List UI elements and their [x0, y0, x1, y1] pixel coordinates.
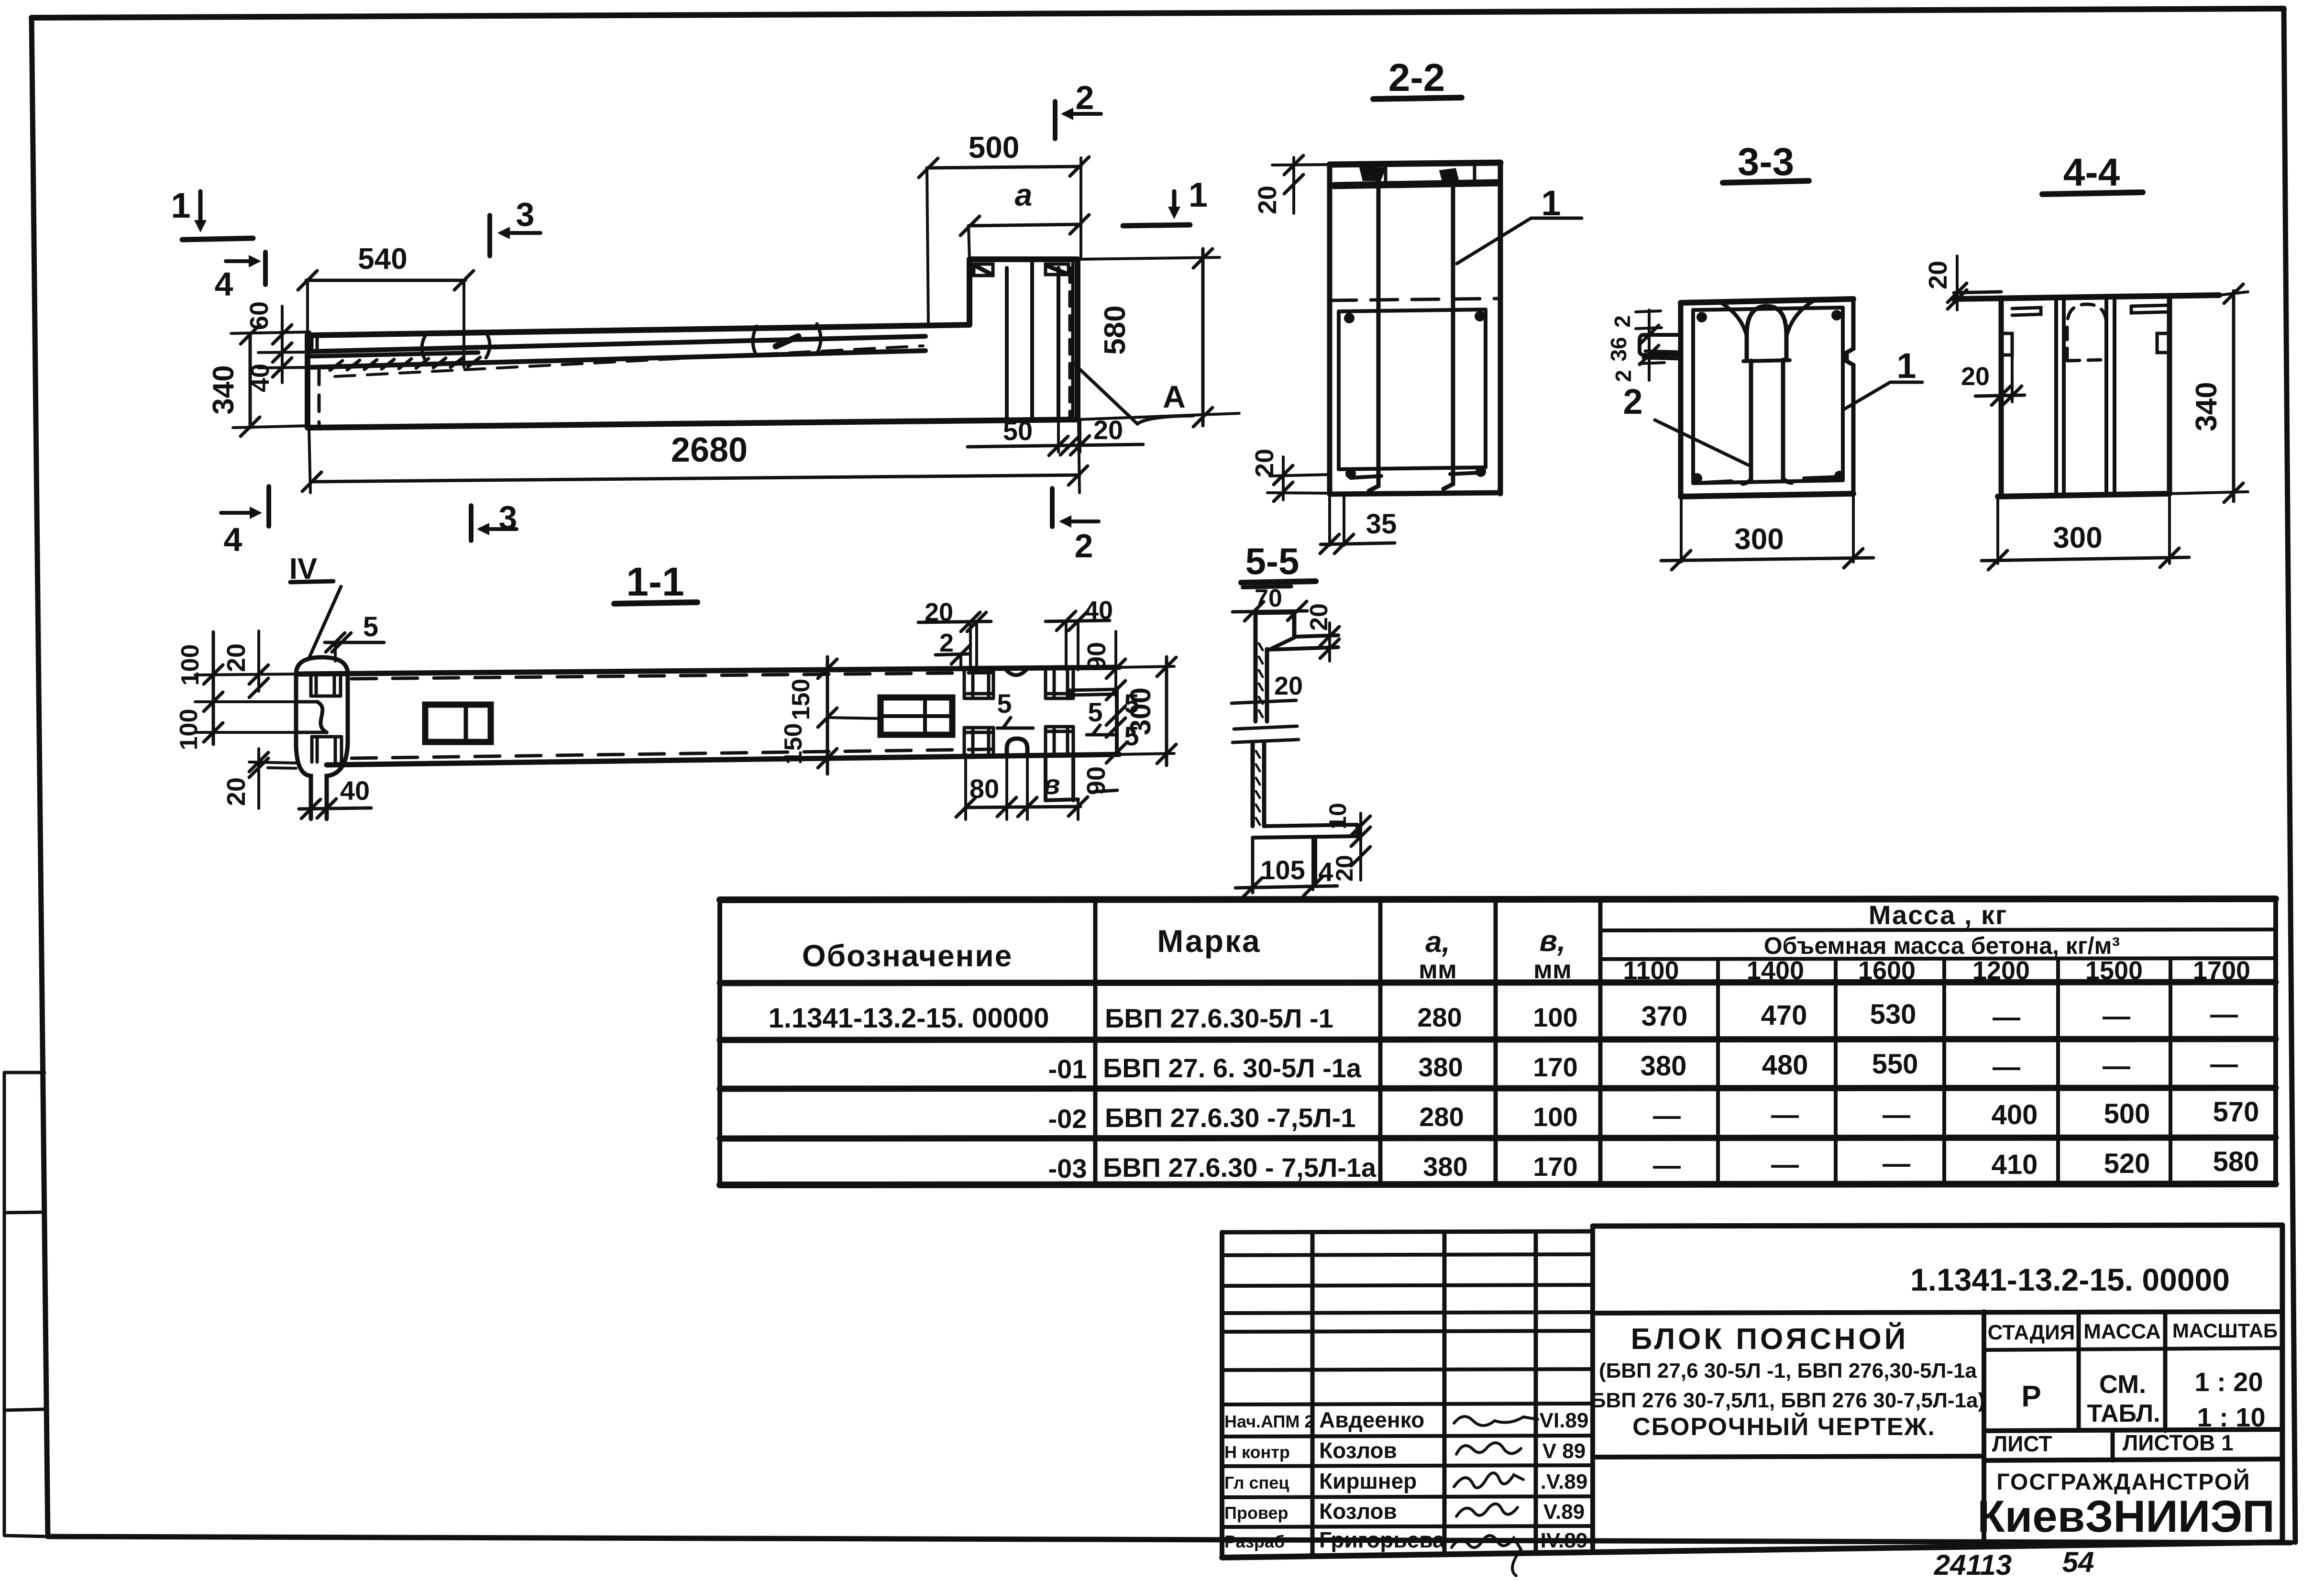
dimension a: [960, 177, 1089, 259]
cap inner bottom groove box: [312, 737, 341, 762]
svg-text:300: 300: [1734, 523, 1784, 556]
dimension 20 right of top flange: [1305, 603, 1339, 661]
section 5-5 top flange: [1256, 612, 1338, 650]
section 2-2 dashed level line: [1330, 299, 1500, 300]
svg-text:410: 410: [1992, 1149, 2038, 1180]
svg-text:170: 170: [1533, 1151, 1577, 1182]
signatures squiggles: [1452, 1416, 1538, 1576]
svg-text:СБОРОЧНЫЙ ЧЕРТЕЖ.: СБОРОЧНЫЙ ЧЕРТЕЖ.: [1632, 1413, 1936, 1441]
svg-text:1 : 10: 1 : 10: [2197, 1402, 2265, 1432]
svg-text:400: 400: [1992, 1099, 2038, 1130]
svg-text:Объемная масса бетона, кг/м: Объемная масса бетона, кг/м³: [1764, 932, 2120, 959]
svg-text:3: 3: [516, 196, 535, 233]
plan view dashed hidden line left end: [318, 368, 321, 428]
dimension 80 and b under U slot: [956, 754, 1088, 819]
svg-text:БВП 27.6.30 - 7,5Л-1а: БВП 27.6.30 - 7,5Л-1а: [1103, 1152, 1377, 1183]
dimension 20 top-left of 4-4: [1924, 256, 1967, 310]
svg-text:—: —: [1771, 1149, 1799, 1180]
svg-text:1: 1: [1541, 183, 1561, 223]
plan view anchor notches under raised top: [974, 264, 1068, 276]
svg-text:500: 500: [969, 130, 1020, 165]
svg-text:280: 280: [1417, 1002, 1462, 1032]
svg-text:90: 90: [1082, 642, 1111, 671]
svg-text:—: —: [1653, 1150, 1681, 1181]
svg-text:Марка: Марка: [1157, 923, 1261, 959]
handwritten archive numbers: [1934, 1546, 2094, 1581]
svg-text:54: 54: [2062, 1546, 2094, 1578]
svg-text:340: 340: [2190, 382, 2223, 431]
section marker 3 bottom: [471, 499, 517, 541]
svg-text:СМ.: СМ.: [2099, 1370, 2146, 1399]
svg-text:2: 2: [1075, 527, 1093, 564]
svg-text:1200: 1200: [1972, 956, 2030, 985]
svg-text:Нач.АПМ 2: Нач.АПМ 2: [1224, 1412, 1314, 1431]
dimension 90 lower right: [1082, 766, 1117, 795]
svg-text:300: 300: [1124, 687, 1156, 735]
svg-text:V 89: V 89: [1542, 1439, 1586, 1463]
dimension 20 below bottom flange: [1331, 842, 1370, 882]
section marker 1 top-right: [1123, 176, 1208, 226]
svg-text:А: А: [1163, 379, 1186, 414]
dimensions 5 5 right edge: [1106, 688, 1139, 763]
leader A on plan view: [1074, 364, 1193, 424]
svg-text:a: a: [1015, 177, 1033, 212]
section 1-1 left hammerhead cap: [296, 657, 348, 819]
svg-text:2-2: 2-2: [1388, 56, 1445, 100]
dimension 20 web thickness: [1232, 672, 1303, 703]
svg-text:530: 530: [1870, 999, 1916, 1030]
section 4-4 outline: [1954, 292, 2219, 497]
svg-text:БЛОК ПОЯСНОЙ: БЛОК ПОЯСНОЙ: [1631, 1322, 1909, 1356]
section marker 2 top-right: [1055, 79, 1101, 139]
svg-text:50: 50: [1003, 416, 1033, 446]
svg-text:1.1341-13.2-15. 00000: 1.1341-13.2-15. 00000: [1910, 1262, 2230, 1297]
svg-text:—: —: [1883, 1099, 1910, 1130]
svg-text:МАСШТАБ: МАСШТАБ: [2172, 1319, 2278, 1342]
svg-text:5: 5: [1088, 697, 1102, 727]
svg-text:КиевЗНИИЭП: КиевЗНИИЭП: [1977, 1491, 2275, 1541]
dimension 540: [298, 243, 474, 367]
dimension 50 and 20 bottom right: [968, 415, 1143, 455]
svg-text:1: 1: [171, 186, 190, 225]
svg-text:36: 36: [1606, 337, 1631, 361]
svg-text:20: 20: [222, 643, 251, 672]
cap notch stub lines: [296, 702, 327, 732]
cap S-curve detail: [317, 702, 327, 732]
dimension 90 upper right: [1082, 631, 1125, 700]
leader 1 on section 3-3: [1843, 346, 1922, 410]
embedded plate with hole (left): [425, 705, 491, 742]
table row 2: [1048, 1049, 2238, 1084]
dimension 300 of 4-4: [1982, 494, 2189, 570]
view title 3-3: [1723, 140, 1809, 184]
dimension 300 of 3-3: [1661, 494, 1873, 570]
svg-text:280: 280: [1419, 1102, 1464, 1132]
svg-text:1 : 20: 1 : 20: [2194, 1367, 2263, 1397]
svg-text:4-4: 4-4: [2063, 151, 2120, 194]
svg-text:5: 5: [997, 688, 1012, 719]
section marker 4 top-left: [215, 252, 265, 303]
section 1-1 right end top notch boxes: [964, 670, 1073, 698]
svg-text:100: 100: [1533, 1002, 1577, 1032]
dimension 105 and leader 4 of 5-5: [1235, 837, 1337, 897]
svg-text:40: 40: [340, 775, 370, 806]
svg-text:в,: в,: [1540, 925, 1566, 958]
svg-text:БВП 27.6.30-5Л -1: БВП 27.6.30-5Л -1: [1105, 1003, 1333, 1033]
dimension 20 cap top-left: [222, 631, 268, 697]
plan view small groove at left end: [312, 335, 317, 352]
table row 4: [1048, 1146, 2259, 1183]
svg-text:БВП 276 30-7,5Л1, БВП 276 30-7: БВП 276 30-7,5Л1, БВП 276 30-7,5Л-1а): [1591, 1389, 1985, 1412]
dimension 340 of 4-4: [2170, 284, 2248, 502]
section 3-3 left tab: [1640, 335, 1681, 359]
svg-text:100: 100: [1533, 1102, 1577, 1132]
dimension 35 of 2-2: [1320, 494, 1397, 553]
section 4-4 hidden void dashed: [2067, 304, 2106, 361]
dimension 70 of 5-5: [1233, 585, 1307, 621]
svg-text:580: 580: [2213, 1146, 2259, 1177]
svg-text:в: в: [1043, 769, 1060, 800]
svg-text:5: 5: [363, 611, 378, 642]
section 1-1 hidden rebar dashed lines: [352, 673, 1002, 758]
svg-text:2680: 2680: [671, 431, 748, 469]
section marker 1 top-left: [171, 186, 253, 240]
dimension 5 at cap top: [325, 611, 384, 661]
svg-text:4: 4: [1318, 857, 1333, 887]
section 3-3 stirrup: [1692, 308, 1845, 484]
section 5-5 web lower part: [1253, 743, 1264, 826]
svg-text:300: 300: [2053, 521, 2102, 554]
svg-text:1-1: 1-1: [626, 559, 684, 604]
table row 3: [1048, 1096, 2259, 1134]
filing margin boxes on left border: [4, 1072, 48, 1537]
dimension 40 left: [246, 352, 308, 392]
section 5-5 bottom flange: [1253, 825, 1357, 838]
svg-text:20: 20: [222, 777, 251, 806]
svg-text:1: 1: [1896, 346, 1916, 386]
title block signature table grid: [1222, 1226, 1593, 1558]
svg-text:—: —: [1883, 1148, 1910, 1179]
svg-text:20: 20: [1924, 261, 1952, 289]
svg-text:2: 2: [1076, 79, 1094, 116]
svg-text:340: 340: [207, 365, 240, 414]
dimension 40 above right end: [1046, 596, 1113, 670]
svg-text:580: 580: [1099, 305, 1132, 354]
svg-text:—: —: [1653, 1100, 1681, 1131]
svg-text:1500: 1500: [2085, 956, 2143, 985]
section marker 4 bottom-left: [221, 486, 269, 558]
svg-text:ЛИСТ: ЛИСТ: [1992, 1431, 2052, 1456]
section 5-5 break lines: [1233, 726, 1299, 742]
svg-text:4: 4: [215, 265, 233, 303]
cap inner top groove box: [311, 676, 341, 696]
plan view raised part inner vertical lines: [1007, 259, 1073, 420]
svg-text:Провер: Провер: [1224, 1503, 1289, 1523]
view title 1-1: [614, 559, 697, 604]
section 1-1 right end bottom notch boxes: [964, 727, 1073, 754]
section marker 2 bottom-right: [1052, 488, 1099, 564]
sheet number row: [1984, 1430, 2282, 1460]
signature table row labels: [1224, 1407, 1588, 1552]
section 1-1 body outline: [296, 667, 1119, 765]
svg-text:150: 150: [787, 679, 815, 720]
svg-text:500: 500: [2104, 1098, 2150, 1129]
svg-text:170: 170: [1533, 1052, 1577, 1082]
dimension 2680: [302, 420, 1088, 493]
svg-text:10: 10: [1324, 803, 1351, 829]
plan view depression arcs pair 2: [753, 324, 821, 356]
svg-text:Григорьева: Григорьева: [1319, 1527, 1445, 1552]
svg-text:380: 380: [1641, 1050, 1687, 1082]
svg-text:мм: мм: [1419, 955, 1457, 984]
dimension 20 bottom-left of 2-2: [1250, 449, 1330, 501]
svg-text:150: 150: [780, 723, 807, 765]
svg-text:520: 520: [2104, 1148, 2150, 1179]
svg-text:Р: Р: [2021, 1380, 2041, 1413]
svg-text:570: 570: [2213, 1096, 2259, 1128]
svg-text:20: 20: [1250, 449, 1279, 477]
svg-text:—: —: [2103, 1001, 2130, 1032]
svg-text:100: 100: [175, 709, 203, 751]
tab mini dimensions 2 36 2: [1606, 310, 1664, 382]
section 3-3 outline: [1681, 299, 1853, 497]
svg-text:370: 370: [1641, 1001, 1688, 1032]
svg-text:.V.89: .V.89: [1541, 1470, 1588, 1493]
svg-text:20: 20: [1274, 672, 1303, 700]
leader 2 on section 3-3: [1623, 382, 1748, 465]
svg-text:МАССА: МАССА: [2083, 1320, 2161, 1343]
svg-text:БВП 27.6.30 -7,5Л-1: БВП 27.6.30 -7,5Л-1: [1105, 1103, 1355, 1133]
svg-text:VI.89: VI.89: [1540, 1409, 1589, 1432]
svg-text:540: 540: [358, 243, 407, 276]
svg-text:Н контр: Н контр: [1224, 1442, 1290, 1462]
svg-text:ЛИСТОВ 1: ЛИСТОВ 1: [2123, 1430, 2234, 1455]
svg-text:СТАДИЯ: СТАДИЯ: [1988, 1321, 2075, 1344]
view title 4-4: [2042, 151, 2143, 194]
svg-text:550: 550: [1872, 1049, 1918, 1080]
svg-text:3-3: 3-3: [1738, 140, 1795, 184]
svg-text:4: 4: [224, 521, 242, 558]
svg-text:БВП 27. 6. 30-5Л -1а: БВП 27. 6. 30-5Л -1а: [1103, 1053, 1362, 1083]
svg-text:105: 105: [1260, 855, 1305, 885]
drawing title text: [1591, 1322, 1985, 1441]
svg-text:80: 80: [969, 774, 999, 804]
organization names: [1977, 1469, 2275, 1541]
dimension 150 150 mid-span: [780, 657, 881, 774]
section 4-4 inner channel walls: [2056, 297, 2115, 494]
right end plate lines: [1068, 689, 1117, 754]
svg-text:1.1341-13.2-15. 00000: 1.1341-13.2-15. 00000: [769, 1003, 1049, 1034]
section marker 3 top: [490, 196, 540, 256]
section-5 cut mark right: [1087, 697, 1114, 735]
svg-text:а,: а,: [1425, 926, 1450, 959]
svg-text:20: 20: [1961, 362, 1990, 391]
svg-text:35: 35: [1366, 509, 1397, 540]
svg-text:Киршнер: Киршнер: [1319, 1469, 1417, 1493]
svg-text:24113: 24113: [1934, 1549, 2012, 1581]
dimension 20 cap bottom-left: [222, 749, 296, 808]
table row 1: [769, 999, 2238, 1034]
svg-text:Масса , кг: Масса , кг: [1869, 900, 2008, 930]
U slot at bottom edge: [1007, 739, 1027, 819]
svg-text:Козлов: Козлов: [1319, 1438, 1397, 1463]
svg-text:V.89: V.89: [1543, 1500, 1585, 1524]
svg-text:Авдеенко: Авдеенко: [1319, 1407, 1424, 1432]
label IV with leader: [289, 553, 341, 659]
svg-text:1100: 1100: [1623, 956, 1679, 985]
svg-text:-02: -02: [1048, 1104, 1087, 1134]
section 5-5 web upper part: [1256, 637, 1267, 721]
dimension 10 right of bottom flange: [1324, 803, 1370, 846]
dimension 60: [231, 301, 310, 362]
view title 5-5: [1241, 540, 1316, 587]
svg-text:1700: 1700: [2193, 956, 2250, 985]
plan view surface hatch band: [330, 336, 798, 370]
plan view: belt block outline: [308, 259, 1079, 428]
stage mass scale cells: [1984, 1312, 2282, 1432]
svg-text:100: 100: [176, 644, 204, 686]
svg-text:Козлов: Козлов: [1319, 1499, 1397, 1524]
dimension 20 and 2 above right end: [918, 598, 991, 670]
svg-text:5-5: 5-5: [1245, 540, 1300, 582]
dimension 20 top-left of 2-2: [1253, 155, 1330, 214]
dimension 340 left: [207, 325, 310, 436]
dimension 500: [919, 130, 1089, 325]
svg-text:IV.89: IV.89: [1541, 1529, 1588, 1552]
dimension 100 100 at left of section 1-1: [175, 632, 296, 750]
svg-text:20: 20: [1253, 186, 1282, 214]
section 2-2 top bearing band: [1334, 163, 1498, 186]
section 2-2 vertical rebars: [1369, 179, 1453, 491]
section 2-2 stirrup: [1339, 310, 1486, 479]
svg-text:(БВП 27,6 30-5Л -1, БВП 276,30: (БВП 27,6 30-5Л -1, БВП 276,30-5Л-1а: [1599, 1359, 1977, 1382]
svg-text:380: 380: [1418, 1052, 1463, 1082]
section 3-3 arched void: [1722, 301, 1813, 484]
svg-text:1400: 1400: [1747, 956, 1804, 985]
leader 1 on section 2-2: [1457, 183, 1582, 264]
svg-text:20: 20: [1093, 415, 1123, 445]
svg-text:-03: -03: [1048, 1153, 1087, 1183]
svg-text:1: 1: [1189, 176, 1208, 214]
dimension 20 mid-left of 4-4: [1961, 355, 2025, 405]
svg-text:Разраб: Разраб: [1224, 1532, 1285, 1551]
svg-text:—: —: [1993, 1002, 2020, 1033]
section 2-2 outline: [1330, 163, 1500, 494]
svg-text:470: 470: [1761, 1000, 1807, 1031]
section-5 cut mark left: [997, 688, 1033, 728]
svg-text:380: 380: [1423, 1151, 1467, 1182]
svg-text:—: —: [2210, 999, 2238, 1030]
svg-text:2: 2: [1610, 315, 1635, 328]
title block outline right part: [1222, 1225, 2282, 1558]
svg-text:ТАБЛ.: ТАБЛ.: [2087, 1400, 2160, 1427]
svg-text:Обозначение: Обозначение: [802, 939, 1013, 973]
svg-text:Гл спец: Гл спец: [1224, 1473, 1289, 1493]
view title 2-2: [1373, 56, 1462, 100]
section 5-5 web hatch dots: [1256, 643, 1263, 825]
svg-text:—: —: [2210, 1049, 2238, 1080]
svg-text:20: 20: [1331, 855, 1358, 882]
section 4-4 bearing plates: [2012, 305, 2170, 315]
plan view depression arcs pair 1: [422, 332, 490, 361]
specification table grid: [720, 899, 2276, 1185]
svg-text:480: 480: [1762, 1050, 1808, 1081]
svg-text:1600: 1600: [1858, 956, 1916, 985]
table header texts: [802, 900, 2250, 985]
semicircular notch on top edge: [1005, 669, 1027, 675]
plan view slab edge lines: [308, 336, 925, 376]
key block below bottom edge: [1046, 754, 1078, 800]
svg-text:—: —: [1771, 1099, 1799, 1130]
svg-text:мм: мм: [1533, 955, 1572, 984]
embedded plate (right): [881, 697, 952, 735]
section 4-4 edge notches: [2001, 333, 2170, 355]
dimension 580: [1078, 249, 1239, 427]
svg-text:-01: -01: [1048, 1054, 1087, 1084]
svg-text:2: 2: [1611, 370, 1636, 382]
dimension 40 below cap: [299, 775, 371, 818]
dimension 300 right end: [1119, 657, 1176, 765]
svg-text:—: —: [2103, 1050, 2130, 1082]
svg-text:2: 2: [1623, 382, 1642, 421]
svg-text:—: —: [1993, 1051, 2020, 1083]
